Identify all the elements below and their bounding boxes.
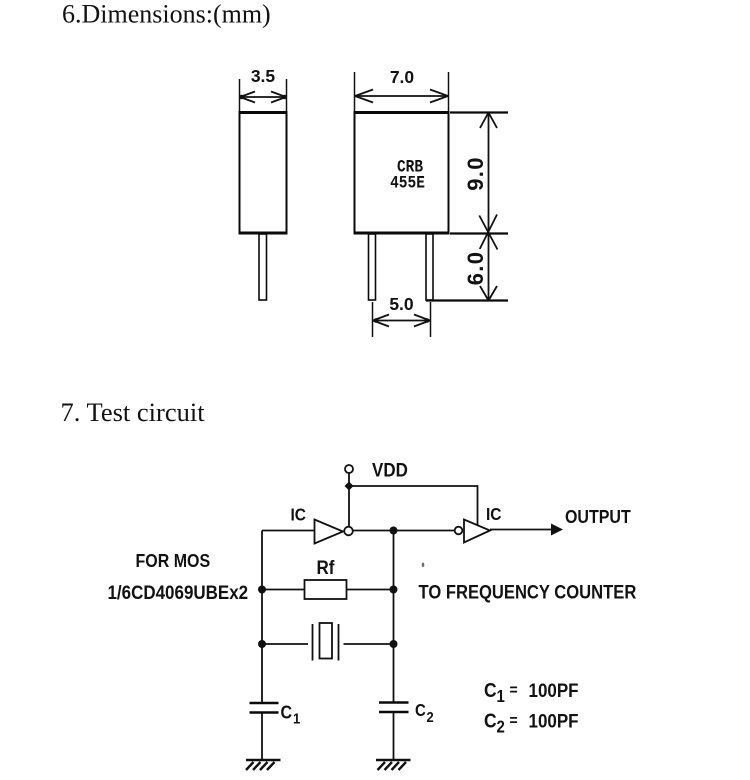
wire input inverter 1 <box>262 530 315 532</box>
svg-text:OUTPUT: OUTPUT <box>565 506 631 527</box>
wire Rf to right rail <box>347 589 394 591</box>
wire right rail <box>393 531 395 704</box>
arrowhead middle X <box>479 215 497 250</box>
extension line right 5.0 <box>430 302 432 337</box>
svg-text:C: C <box>415 701 426 720</box>
capacitor C2 top plate <box>379 701 409 704</box>
lead left front view <box>369 234 376 300</box>
node left crystal <box>258 640 266 648</box>
extension line right (side view) <box>286 79 288 111</box>
svg-text:6.Dimensions:(mm): 6.Dimensions:(mm) <box>62 0 271 29</box>
resistor Rf <box>305 580 347 599</box>
svg-text:Rf: Rf <box>317 556 336 578</box>
dimension arrow 5.0 <box>373 315 430 327</box>
capacitor C1 bottom plate <box>250 711 279 714</box>
output arrowhead <box>551 524 563 536</box>
svg-text:6.0: 6.0 <box>463 251 488 285</box>
svg-text:1/6CD4069UBEx2: 1/6CD4069UBEx2 <box>108 581 249 603</box>
svg-text:1: 1 <box>497 687 505 706</box>
dot left arrow tip 5.0 <box>374 318 379 323</box>
svg-text:2: 2 <box>427 708 434 725</box>
svg-text:IC: IC <box>291 504 306 524</box>
extension line bottom <box>426 299 508 301</box>
arrowhead bottom <box>480 286 497 301</box>
ground 1 <box>246 760 281 770</box>
package body front view <box>354 113 450 234</box>
extension line left 5.0 <box>372 302 374 337</box>
svg-text:100PF: 100PF <box>529 709 579 731</box>
node output junction <box>390 527 398 535</box>
extension line left (side view) <box>239 79 241 111</box>
wire inverter1 output to inverter2 <box>353 530 455 532</box>
svg-text:2: 2 <box>497 718 505 737</box>
svg-text:FOR MOS: FOR MOS <box>136 550 211 571</box>
svg-text:IC: IC <box>486 504 501 524</box>
dot left arrow tip 3.5 <box>239 95 244 100</box>
svg-text:1: 1 <box>293 710 300 727</box>
svg-text:455E: 455E <box>390 173 425 193</box>
wire output <box>490 529 553 531</box>
op-amp inverter U1 triangle <box>315 520 344 544</box>
wire VDD to node <box>348 473 350 486</box>
op-amp inverter U2 triangle <box>464 520 490 543</box>
extension line middle <box>450 232 508 234</box>
inverter 2 input bubble <box>455 527 463 535</box>
crystal X1 left plate <box>312 624 314 661</box>
wire VDD node to right <box>349 486 478 525</box>
svg-text:=: = <box>510 681 518 699</box>
wire C1 to ground <box>261 714 263 761</box>
svg-text:C: C <box>484 709 497 731</box>
crystal X1 body <box>320 623 333 659</box>
extension line top <box>450 111 508 113</box>
package body side view <box>239 113 288 234</box>
svg-text:7. Test circuit: 7. Test circuit <box>61 397 206 427</box>
svg-text:3.5: 3.5 <box>251 66 276 86</box>
svg-text:C: C <box>281 701 293 722</box>
capacitor C2 bottom plate <box>379 711 409 714</box>
inverter 1 output bubble <box>344 527 353 536</box>
vertical dimension line <box>488 113 490 301</box>
svg-text:100PF: 100PF <box>529 679 579 701</box>
speck artifact <box>422 563 425 568</box>
node right Rf <box>390 586 398 594</box>
svg-text:TO FREQUENCY COUNTER: TO FREQUENCY COUNTER <box>419 581 637 602</box>
dimension arrow 3.5 <box>240 92 286 103</box>
node right crystal <box>390 640 398 648</box>
svg-text:VDD: VDD <box>372 458 408 480</box>
wire left to crystal <box>262 643 308 645</box>
extension line left (front view) <box>354 72 356 111</box>
lead side view <box>259 234 267 300</box>
dot right arrow tip 5.0 <box>425 318 430 323</box>
extension line right (front view) <box>448 72 450 111</box>
wire left to Rf <box>262 589 305 591</box>
dimension arrow 7.0 <box>355 90 448 103</box>
wire VDD node down to inverter output bubble <box>348 486 350 526</box>
crystal X1 right plate <box>338 624 340 661</box>
wire crystal to right rail <box>344 643 394 645</box>
svg-text:C: C <box>484 679 497 701</box>
svg-text:=: = <box>510 712 518 730</box>
node VDD junction (diamond) <box>345 482 354 491</box>
lead right front view <box>426 234 433 300</box>
VDD terminal circle <box>345 465 353 473</box>
arrowhead top <box>480 113 497 129</box>
wire left rail <box>261 531 263 704</box>
svg-text:5.0: 5.0 <box>389 294 414 314</box>
capacitor C1 top plate <box>250 702 279 705</box>
svg-text:9.0: 9.0 <box>463 156 488 190</box>
dot right arrow tip 3.5 <box>282 95 287 100</box>
node left Rf <box>258 586 266 594</box>
wire C2 to ground <box>393 713 395 760</box>
svg-text:7.0: 7.0 <box>390 67 415 87</box>
ground 2 <box>376 760 411 770</box>
